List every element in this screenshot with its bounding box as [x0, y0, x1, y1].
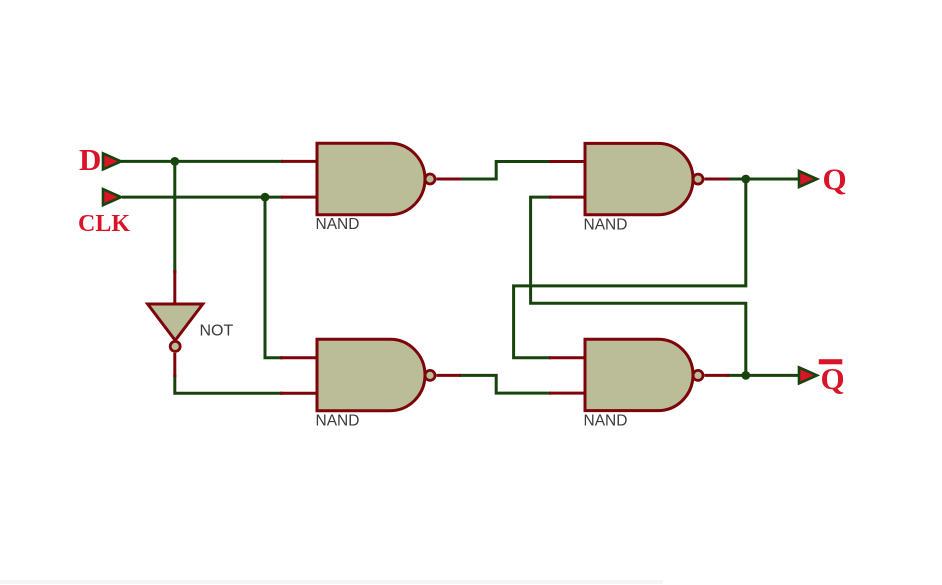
- svg-text:Q: Q: [823, 161, 847, 196]
- wire Qbar output: [727, 374, 800, 377]
- junction dot at Q output: [741, 175, 750, 184]
- output terminal arrow Qbar: [799, 367, 817, 383]
- pin U3 output: [705, 178, 730, 181]
- pin U1 output: [437, 178, 462, 181]
- pin U4 input A: [549, 356, 586, 359]
- svg-text:NAND: NAND: [316, 413, 360, 430]
- svg-text:NAND: NAND: [316, 216, 360, 233]
- NAND gate U2 output bubble: [425, 370, 435, 380]
- svg-text:Q: Q: [821, 361, 845, 396]
- NAND gate U2 body: [317, 339, 425, 410]
- NOT gate body: [148, 304, 203, 340]
- wire D vertical to NOT: [173, 161, 176, 273]
- wire NOT output to U2: [175, 375, 283, 393]
- wire CLK branch to U2: [265, 197, 283, 358]
- pin U2 input B: [280, 392, 318, 395]
- svg-text:CLK: CLK: [78, 211, 130, 237]
- wire CLK horizontal: [122, 196, 283, 199]
- wire Q feedback to U4: [514, 178, 746, 358]
- output label Qbar overline: [819, 359, 843, 364]
- faint bottom strip: [0, 580, 663, 584]
- pin NOT input: [173, 270, 176, 305]
- pin U3 input B: [549, 196, 586, 199]
- svg-text:D: D: [79, 142, 101, 177]
- output terminal arrow Q: [799, 171, 817, 187]
- pin U3 input A: [549, 160, 586, 163]
- NAND gate U4 output bubble: [693, 370, 703, 380]
- NAND gate U1 body: [317, 143, 425, 214]
- svg-text:NAND: NAND: [584, 217, 628, 234]
- pin U2 output: [437, 374, 462, 377]
- svg-text:NOT: NOT: [200, 322, 234, 339]
- NAND gate U4 body: [585, 339, 693, 410]
- svg-text:NAND: NAND: [584, 413, 628, 430]
- wire U2 output to U4: [459, 375, 551, 393]
- junction dot on D line: [170, 157, 179, 166]
- pin U4 output: [705, 374, 730, 377]
- pin U4 input B: [549, 392, 586, 395]
- wire U1 output to U3: [459, 162, 551, 180]
- NOT gate output bubble: [170, 341, 180, 351]
- pin U1 input A: [281, 160, 318, 163]
- pin U1 input B: [281, 196, 318, 199]
- junction dot on CLK line: [261, 193, 270, 202]
- wire Q output: [727, 178, 800, 181]
- wire Qbar feedback to U3: [531, 197, 746, 377]
- junction dot at Qbar output: [741, 371, 750, 380]
- NAND gate U1 output bubble: [425, 174, 435, 184]
- input terminal arrow CLK: [103, 189, 121, 205]
- NAND gate U3 output bubble: [693, 174, 703, 184]
- NAND gate U3 body: [585, 143, 693, 214]
- input terminal arrow D: [103, 153, 121, 169]
- wire D horizontal: [121, 160, 283, 163]
- pin U2 input A: [280, 356, 318, 359]
- pin NOT output: [173, 353, 176, 377]
